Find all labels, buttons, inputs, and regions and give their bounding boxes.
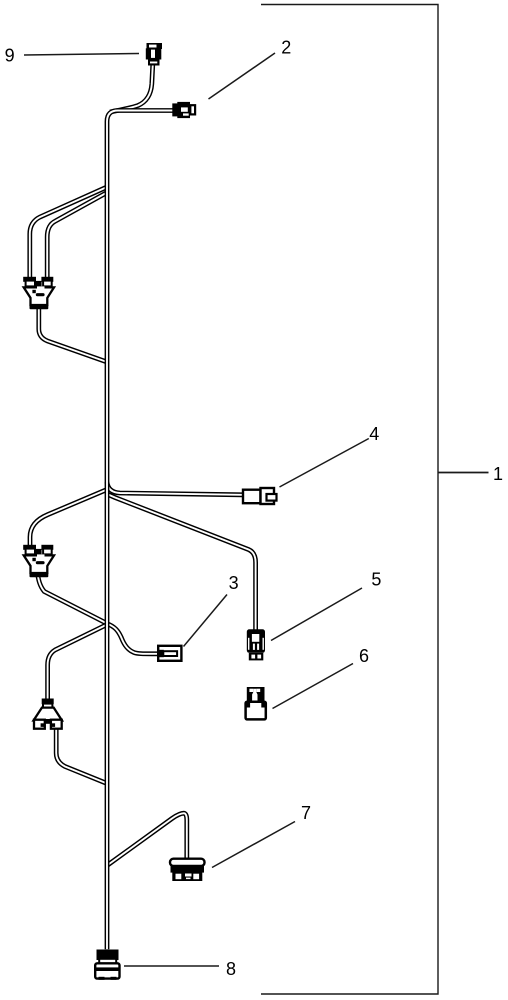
wire branch to connector 4 (107, 482, 243, 495)
wire branch to splice Y1 right input (47, 193, 107, 278)
svg-text:9: 9 (5, 46, 15, 66)
splice connector Y3 (one-in two-out) (34, 699, 63, 729)
wire branch to splice Y2 input (30, 490, 107, 547)
wire lead to connector 9 (110, 64, 153, 112)
connector 9 (146, 43, 162, 66)
wire return from splice Y3 to trunk (56, 727, 107, 784)
wire return from splice Y1 to trunk (39, 306, 107, 362)
connector 8 (95, 950, 119, 980)
callout line 7 (212, 822, 295, 868)
wire branch to connector 3 (107, 624, 159, 654)
assembly boundary bracket 1 (261, 5, 438, 995)
svg-text:6: 6 (359, 646, 369, 666)
svg-text:5: 5 (371, 570, 381, 590)
splice connector Y1 (two-in one-out) (23, 277, 54, 310)
svg-text:8: 8 (226, 959, 236, 979)
wire branch to splice Y3 input (48, 625, 107, 700)
connector 3 (158, 646, 181, 661)
callout line 6 (273, 664, 354, 709)
callout line 9 (24, 54, 139, 56)
wire branch to connector 5 (107, 494, 256, 631)
callout line 4 (280, 439, 369, 488)
callout line 5 (271, 588, 362, 641)
connector 2 (172, 102, 195, 118)
connector 7 (170, 859, 205, 881)
svg-text:2: 2 (281, 38, 291, 58)
splice connector Y2 (one-in one-out) (23, 545, 54, 578)
callout line 3 (184, 595, 228, 647)
connector 6 (246, 687, 266, 719)
svg-text:1: 1 (493, 464, 503, 484)
wire return from splice Y2 to trunk (37, 571, 107, 624)
svg-text:7: 7 (301, 803, 311, 823)
callout line 1 (438, 472, 489, 474)
callout line 8 (124, 965, 219, 967)
callout line 2 (209, 53, 276, 99)
wire branch to connector 7 (107, 813, 187, 865)
svg-text:3: 3 (229, 573, 239, 593)
connector 4 (243, 488, 277, 504)
svg-text:4: 4 (369, 424, 379, 444)
connector 5 (247, 629, 265, 660)
main trunk wire with top lead to connector 2 (107, 111, 173, 950)
wire branch to splice Y1 left input (30, 187, 107, 278)
